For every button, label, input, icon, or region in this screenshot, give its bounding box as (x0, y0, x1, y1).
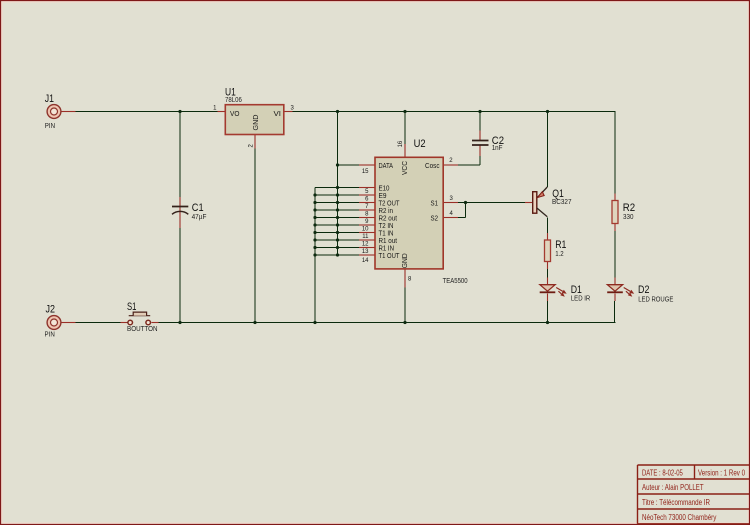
junction bus1 / row R2 out pin 9 (313, 216, 316, 219)
pin stub U1 pin2 (254, 135, 256, 149)
wire Q1 emitter column (547, 112, 549, 188)
svg-text:S2: S2 (431, 215, 439, 222)
transistor Q1 (533, 187, 572, 217)
svg-text:D1: D1 (571, 284, 582, 296)
wire row R1out (315, 239, 375, 241)
resistor R2 (612, 201, 635, 224)
pin stub D2 bottom (614, 294, 616, 302)
svg-text:R2 out: R2 out (379, 215, 398, 222)
pin stub R2 bottom (614, 224, 616, 232)
pin stub U2 T2 OUT pin 7 (359, 202, 375, 204)
pin stub U1 pin1 (218, 111, 226, 113)
junction bus2 / row T2 OUT pin 7 (336, 201, 339, 204)
junction bus1 / row T2 OUT pin 7 (313, 201, 316, 204)
emitter arrow (537, 192, 544, 198)
junction bus1 / row T1 IN pin 11 (313, 231, 316, 234)
pin stub U2 VCC (404, 144, 406, 158)
pin stub S1 left (121, 322, 128, 324)
wire top rail left (61, 111, 225, 113)
junction bus2 / row T1 OUT pin 14 (336, 253, 339, 256)
pin stub U2 R2 in pin 8 (359, 209, 375, 211)
S1 button cap (133, 312, 146, 316)
junction bottom rail / bus1 (313, 321, 316, 324)
wire D1 to rail (547, 294, 549, 323)
wire row R1IN (315, 247, 375, 249)
regulator U1 (213, 86, 294, 147)
pin stub U2 R2 out pin 9 (359, 217, 375, 219)
pin stub J1 (61, 111, 76, 113)
svg-text:14: 14 (362, 258, 369, 264)
svg-text:13: 13 (362, 249, 369, 255)
pin stub C2 bottom (479, 145, 481, 156)
svg-text:11: 11 (362, 234, 369, 240)
junction bus1 / row R1 IN pin 13 (313, 246, 316, 249)
U2 body TEA5500 (375, 157, 443, 269)
D2 emission arrow 1 (624, 288, 631, 292)
title block line 2 (638, 478, 750, 480)
wire Q1 collector to R1 (547, 218, 549, 241)
svg-text:15: 15 (362, 169, 369, 175)
pin stub U2 R1 IN pin 13 (359, 247, 375, 249)
node DATA junction (336, 163, 339, 166)
wire right column top (614, 112, 616, 201)
S1 contact bar (129, 315, 151, 317)
svg-text:U2: U2 (414, 138, 426, 150)
Q1 base bar (533, 192, 537, 214)
pin stub C1 (179, 197, 181, 228)
svg-text:VO: VO (230, 111, 240, 118)
svg-text:R1 out: R1 out (379, 238, 398, 245)
junction bus2 / row T2 IN pin 10 (336, 223, 339, 226)
connector J1 (45, 93, 61, 130)
wire row E10 (315, 187, 375, 189)
junction bus2 / row T1 IN pin 11 (336, 231, 339, 234)
svg-text:R1 IN: R1 IN (379, 245, 395, 252)
wire VCC column (404, 112, 406, 158)
svg-text:R2 in: R2 in (379, 208, 394, 215)
pin stub U2 E9 pin 6 (359, 194, 375, 196)
D1 cathode bar (540, 291, 556, 293)
D1 triangle (540, 285, 555, 292)
pin stub U2 S2 (443, 217, 458, 219)
C1 top plate (172, 206, 188, 208)
node top rail / bus2 (336, 110, 339, 113)
wire DATA row (338, 164, 376, 166)
wire row E9 (315, 194, 375, 196)
D2 triangle (607, 285, 622, 292)
svg-text:D2: D2 (638, 284, 649, 296)
wire bottom rail right (152, 322, 616, 324)
svg-text:T1 IN: T1 IN (379, 230, 394, 237)
svg-text:1nF: 1nF (492, 145, 503, 152)
wire R1 to D1 (547, 262, 549, 286)
wire C1 column (179, 112, 181, 323)
svg-text:Cosc: Cosc (425, 163, 440, 170)
D1 emission arrow 2 (558, 291, 561, 294)
svg-text:Auteur : Alain POLLET: Auteur : Alain POLLET (642, 483, 704, 492)
junction bottom rail / U1 pin2 (253, 321, 256, 324)
junction bus1 / row E9 pin 6 (313, 193, 316, 196)
pin stub U2 T2 IN pin 10 (359, 224, 375, 226)
title block bottom line (638, 523, 750, 525)
svg-text:Titre : Télécommande IR: Titre : Télécommande IR (642, 498, 710, 507)
junction bus1 / row R2 in pin 8 (313, 208, 316, 211)
junction bus1 / row T1 OUT pin 14 (313, 253, 316, 256)
pin stub R1 top (547, 233, 549, 240)
S1 left contact (128, 320, 133, 325)
wire row T2OUT (315, 202, 375, 204)
wire right column bottom (614, 301, 616, 323)
svg-text:E9: E9 (379, 193, 387, 200)
svg-text:GND: GND (253, 115, 260, 131)
svg-text:C1: C1 (192, 202, 204, 214)
pin stub C2 top (479, 131, 481, 141)
C1 curved plate (172, 211, 188, 214)
junction bottom rail / U2 GND (403, 321, 406, 324)
svg-text:VI: VI (274, 111, 282, 118)
svg-text:BC327: BC327 (552, 199, 572, 206)
wire U1 pin2 column (254, 135, 256, 323)
switch S1 (127, 301, 158, 333)
R2 body (612, 201, 618, 224)
wire bottom rail left (61, 322, 128, 324)
junction bus1 / row R1 out pin 12 (313, 238, 316, 241)
svg-text:TEA5500: TEA5500 (443, 278, 468, 285)
svg-text:BOUTTON: BOUTTON (127, 326, 158, 333)
pin stub D2 top (614, 278, 616, 286)
svg-text:47µF: 47µF (192, 214, 207, 221)
pin stub U2 T1 OUT pin 14 (359, 254, 375, 256)
collector diagonal (537, 208, 547, 217)
node top rail / C2 (478, 110, 481, 113)
junction bus2 / row R2 in pin 8 (336, 208, 339, 211)
svg-text:16: 16 (398, 140, 404, 147)
junction bottom rail / D1 (546, 321, 549, 324)
svg-text:VCC: VCC (402, 161, 409, 175)
svg-text:DATE : 8-02-05: DATE : 8-02-05 (642, 468, 683, 477)
svg-text:S1: S1 (431, 200, 439, 207)
pin stub J2 (61, 322, 76, 324)
D2 emission arrow 2 (626, 291, 629, 294)
pin stub U2 DATA (359, 164, 375, 166)
LED D1 (540, 284, 591, 303)
svg-text:1.2: 1.2 (555, 251, 564, 258)
wire row T1IN (315, 232, 375, 234)
svg-text:E10: E10 (379, 185, 390, 192)
pin stub U2 GND (404, 269, 406, 288)
D1 emission arrow 1 (556, 288, 563, 292)
J2 outer ring (47, 316, 61, 330)
junction bus2 / row R1 IN pin 13 (336, 246, 339, 249)
svg-text:12: 12 (362, 241, 369, 247)
capacitor C1 (172, 202, 206, 221)
svg-text:T2 IN: T2 IN (379, 223, 394, 230)
node top rail / C1 (178, 110, 181, 113)
svg-text:PIN: PIN (45, 123, 55, 130)
junction bus2 / row R1 out pin 12 (336, 238, 339, 241)
J1 outer ring (47, 105, 61, 119)
R1 body (545, 240, 551, 262)
svg-text:S1: S1 (127, 301, 136, 313)
wire S1 row (443, 202, 533, 204)
pin stubs (red) (61, 112, 615, 323)
J2 inner ring (51, 319, 58, 326)
svg-text:J2: J2 (46, 304, 56, 316)
wire row R2in (315, 209, 375, 211)
connector J2 (45, 304, 61, 339)
pin stub U2 R1 out pin 12 (359, 239, 375, 241)
S1 right contact (146, 320, 151, 325)
svg-text:J1: J1 (45, 93, 54, 105)
wire bus1 (314, 188, 316, 323)
svg-text:PIN: PIN (45, 331, 55, 338)
IC U2 (362, 138, 468, 285)
title block line 3 (638, 493, 750, 495)
junction bus2 / row R2 out pin 9 (336, 216, 339, 219)
wire top rail right (285, 111, 616, 113)
capacitor C2 (472, 135, 504, 152)
svg-text:78L06: 78L06 (225, 97, 242, 104)
pin stub Q1 base (525, 202, 533, 204)
pin stub U2 T1 IN pin 11 (359, 232, 375, 234)
LED D2 (607, 284, 673, 303)
wire GND column (404, 288, 406, 323)
wire row R2out (315, 217, 375, 219)
J1 inner ring (51, 108, 58, 115)
C2 bottom plate (472, 144, 489, 146)
svg-text:10: 10 (362, 226, 369, 232)
U1 body 78L06 (225, 105, 283, 135)
junction bottom rail / C1 (178, 321, 181, 324)
node top rail / VCC (403, 110, 406, 113)
D2 cathode bar (607, 291, 623, 293)
svg-text:R1: R1 (555, 239, 566, 251)
svg-text:T1 OUT: T1 OUT (379, 253, 401, 260)
junction bus1 / row T2 IN pin 10 (313, 223, 316, 226)
junction bus2 / row E9 pin 6 (336, 193, 339, 196)
title block left line (637, 465, 639, 524)
junction bus2 / row E10 pin 5 (336, 186, 339, 189)
wire C2 column (479, 112, 481, 141)
wire S2 vertical (465, 203, 467, 218)
pin stub U1 pin3 (285, 111, 293, 113)
svg-text:DATA: DATA (379, 163, 394, 170)
resistor R1 (545, 239, 567, 262)
pin stub D1 top (547, 278, 549, 286)
wire right column mid (614, 224, 616, 286)
pin stub U2 S1 (443, 202, 458, 204)
svg-text:GND: GND (402, 253, 409, 268)
node top rail / Q1 emitter (546, 110, 549, 113)
pin stub U2 Cosc (443, 164, 458, 166)
node S2/S1 junction (464, 201, 467, 204)
title block (638, 465, 750, 524)
C2 top plate (472, 140, 489, 142)
svg-text:R2: R2 (623, 202, 635, 214)
pin stub R1 bottom (547, 262, 549, 270)
svg-text:T2 OUT: T2 OUT (379, 200, 401, 207)
pin stub U2 E10 pin 5 (359, 187, 375, 189)
pin stub S1 right (152, 322, 159, 324)
svg-text:330: 330 (623, 214, 634, 221)
svg-text:Version : 1 Rev 0: Version : 1 Rev 0 (698, 468, 745, 477)
title block line 4 (638, 508, 750, 510)
wire bus2 (337, 112, 339, 256)
svg-text:NéoTech 73000 Chambéry: NéoTech 73000 Chambéry (642, 513, 716, 522)
svg-text:LED IR: LED IR (571, 296, 591, 303)
wire row T1OUT (315, 254, 375, 256)
svg-text:LED ROUGE: LED ROUGE (638, 296, 673, 303)
wire S2 row (443, 217, 466, 219)
title block top line (638, 464, 750, 466)
emitter diagonal (537, 187, 547, 198)
junction dots (178, 110, 549, 324)
pin stub D1 bottom (547, 294, 549, 302)
pin stub R2 top (614, 194, 616, 201)
title block cell divider (694, 465, 696, 479)
wire row T2IN (315, 224, 375, 226)
wire Cosc horizontal (443, 164, 480, 166)
